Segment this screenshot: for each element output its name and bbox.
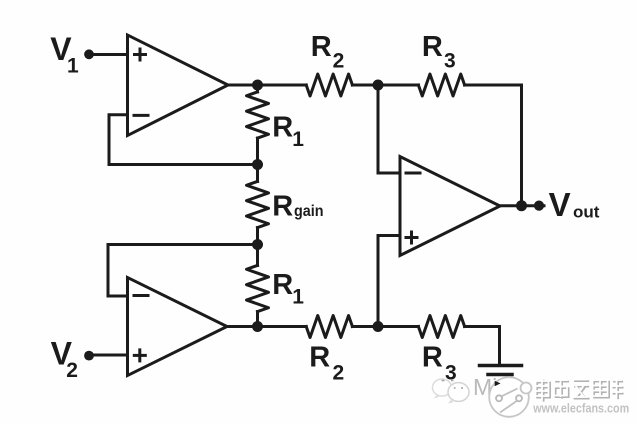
watermark wechat icon (433, 379, 470, 404)
svg-text:1: 1 (292, 128, 304, 151)
wire (352, 84, 418, 87)
wire U1 feedback (109, 115, 258, 165)
svg-text:R: R (272, 112, 293, 144)
node junction bottom R2/R3 (373, 321, 384, 332)
node B R1/Rgain (252, 159, 263, 170)
wire top rail (228, 84, 306, 87)
resistor Rgain (256, 165, 259, 182)
svg-text:R: R (311, 31, 332, 63)
wire V2 input (90, 354, 128, 357)
resistor R2 top (306, 74, 352, 96)
wire junction to U3 plus (378, 236, 400, 327)
wire V1 input (90, 53, 128, 56)
svg-text:V: V (549, 186, 571, 223)
wire to right corner (465, 85, 522, 206)
watermark circle logo (489, 377, 531, 417)
resistor R3 top (418, 74, 464, 96)
node D bottom (252, 321, 263, 332)
svg-text:1: 1 (67, 54, 79, 77)
svg-text:R: R (422, 31, 443, 63)
node junction top R2/R3 (373, 80, 384, 91)
svg-text:R: R (422, 342, 443, 374)
node V1 terminal (84, 49, 94, 59)
ground (480, 364, 522, 368)
wire to ground (465, 327, 500, 365)
wire U2 feedback (108, 245, 258, 297)
svg-text:R: R (272, 269, 293, 301)
op-amp U1 (128, 35, 229, 136)
resistor R2 bottom (306, 316, 352, 338)
svg-text:1: 1 (292, 286, 304, 309)
node V2 terminal (84, 351, 94, 361)
node output junction (516, 200, 527, 211)
resistor R3 bottom (418, 316, 464, 338)
watermark chinese glyphs (embossed) (537, 379, 624, 402)
svg-text:R: R (272, 190, 293, 222)
wire (352, 325, 418, 328)
node Vout terminal (534, 201, 544, 211)
svg-text:R: R (309, 342, 330, 374)
ground bar 3 remnant (495, 381, 501, 386)
node C Rgain/R1 (252, 239, 263, 250)
svg-text:out: out (573, 203, 600, 222)
wire junction to U3 minus (378, 85, 400, 173)
op-amp U3 (400, 157, 500, 256)
svg-text:www.elecfans.com: www.elecfans.com (532, 402, 629, 416)
node A top (252, 80, 263, 91)
svg-text:2: 2 (66, 359, 78, 382)
resistor R1 lower (256, 245, 259, 266)
wire output (500, 204, 544, 207)
wire bottom rail (227, 325, 306, 328)
svg-text:3: 3 (444, 50, 456, 73)
svg-text:gain: gain (294, 203, 324, 220)
op-amp U2 (128, 278, 228, 376)
svg-text:2: 2 (333, 362, 345, 385)
svg-text:2: 2 (333, 50, 345, 73)
resistor R1 upper (256, 85, 259, 92)
